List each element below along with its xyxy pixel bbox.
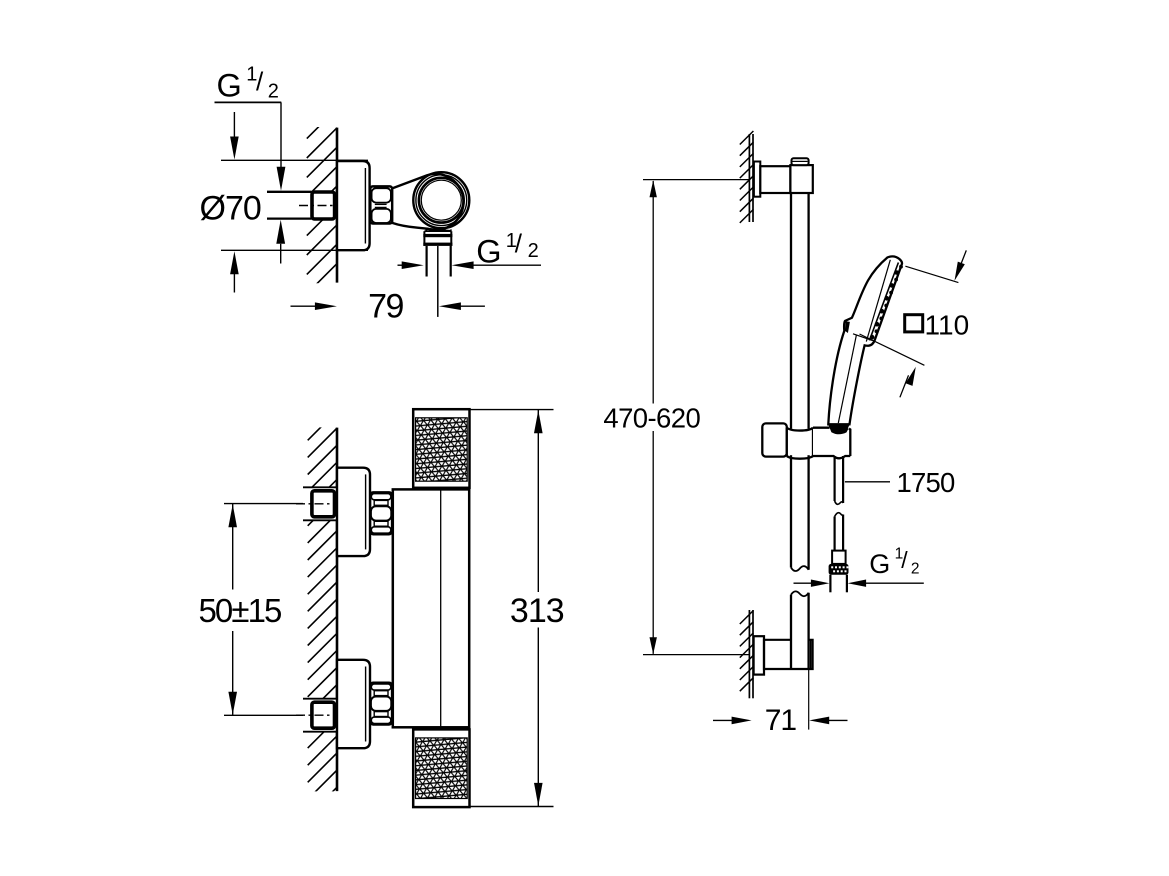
- svg-text:79: 79: [368, 288, 403, 326]
- svg-text:2: 2: [528, 240, 539, 262]
- holder notch (dark): [830, 428, 849, 434]
- svg-text:/: /: [901, 547, 908, 573]
- svg-text:G: G: [476, 233, 501, 269]
- extension line 50+-15 lower: [224, 714, 310, 716]
- rail break line lower: [791, 591, 809, 596]
- union washer edges lower (front view): [303, 699, 336, 732]
- volume knob (front view, knurled): [413, 729, 469, 807]
- outlet pipe (side view): [426, 246, 428, 277]
- flange edge highlight line (side view): [364, 168, 366, 244]
- G1/2 leader line + arrow to supply nipple: [280, 102, 282, 170]
- wall face line (side view): [336, 128, 339, 283]
- svg-text:470-620: 470-620: [603, 402, 700, 433]
- body edge line (front view): [440, 489, 442, 727]
- dimension 79: [291, 305, 319, 307]
- dimension line 313: [537, 410, 539, 592]
- temperature knob (front view, knurled): [413, 409, 469, 488]
- outlet G1/2 dimension arrows: [398, 264, 403, 266]
- hex union nut (side view): [370, 186, 392, 223]
- label square110: [905, 315, 923, 332]
- shower rail upper segment: [790, 193, 792, 568]
- valve body silhouette (side view): [392, 174, 463, 230]
- upper rail bracket escutcheon: [754, 162, 760, 197]
- svg-text:G: G: [217, 68, 242, 104]
- temperature knob circles (side view): [413, 172, 469, 228]
- shower rail lower segment: [790, 595, 792, 669]
- dimension line 470-620: [652, 181, 654, 404]
- svg-text:313: 313: [510, 592, 564, 630]
- wall hatch ticks bottom (right view): [740, 611, 754, 692]
- extension line 470-620 top: [643, 179, 749, 181]
- svg-text:G: G: [869, 549, 890, 579]
- svg-text:71: 71: [765, 704, 797, 737]
- wall union square nut lower (front view): [312, 702, 335, 728]
- O70 arrow up: [233, 272, 235, 293]
- slider clamp knob: [762, 423, 787, 456]
- rail break line upper: [791, 566, 809, 571]
- shower outlet neck (side view): [426, 228, 451, 231]
- outlet pipe centerline / extension for 79: [437, 246, 439, 317]
- hand shower silhouette (head + handle): [828, 256, 902, 424]
- thermostat body (front view): [393, 489, 469, 727]
- slider shower holder section: [813, 429, 850, 456]
- svg-text:/: /: [515, 228, 523, 258]
- extension line 50+-15 upper: [224, 503, 310, 505]
- svg-text:110: 110: [925, 310, 970, 341]
- upper rail bracket body: [760, 166, 790, 193]
- svg-text:/: /: [256, 67, 264, 97]
- hex union nut upper (front view): [370, 492, 392, 534]
- wall union square nut (side view): [312, 192, 335, 219]
- extension line 470-620 bottom: [643, 654, 749, 656]
- handle cone end (dark): [828, 424, 850, 432]
- centerline upper nut: [296, 503, 335, 505]
- head size extension line upper: [905, 266, 958, 282]
- dimension 71: [713, 719, 734, 721]
- extension line, flange bottom (O70 lower): [221, 249, 368, 251]
- hose G1/2 dimension arrows: [794, 582, 813, 584]
- lower rail bracket escutcheon: [754, 636, 764, 674]
- shower hose lower segment: [835, 513, 844, 517]
- escutcheon flange (side view): [337, 161, 370, 250]
- supply pipe stub (side view): [267, 193, 312, 217]
- wall segment top (right view): [748, 134, 750, 222]
- wall hatching (side view): [307, 108, 337, 293]
- slider middle section on rail: [787, 429, 813, 456]
- spray nozzles (dots along face): [899, 265, 903, 269]
- upper rail bracket clamp: [790, 165, 812, 193]
- lower rail bracket outline: [764, 640, 813, 669]
- svg-text:1750: 1750: [897, 467, 955, 498]
- union washer edges upper (front view): [303, 487, 336, 520]
- head/handle junction line: [853, 334, 873, 341]
- wall hatching (front view): [308, 411, 337, 817]
- escutcheon flange upper (front view): [337, 468, 370, 556]
- extension line 313 top: [470, 409, 554, 411]
- O70 arrow down: [233, 112, 235, 140]
- lower rail bracket body fill: [764, 640, 813, 669]
- hose ferrule: [832, 551, 846, 564]
- svg-text:50±15: 50±15: [198, 592, 281, 629]
- svg-text:2: 2: [911, 561, 920, 578]
- head size arrow lower: [900, 375, 909, 397]
- spray face inner line B: [866, 260, 890, 342]
- rail top cap: [792, 158, 809, 165]
- handle inner line: [838, 335, 856, 424]
- lower bracket cap line: [810, 640, 812, 669]
- shower hose upper segment: [833, 456, 835, 501]
- wall hatch ticks top (right view): [740, 131, 754, 223]
- hose nut G1/2 (knurled dark): [829, 564, 849, 575]
- hose connection stub: [829, 575, 831, 593]
- hex union nut lower (front view): [370, 683, 392, 725]
- G1/2 label underline: [215, 101, 282, 103]
- hose break line upper: [835, 501, 844, 504]
- centerline lower nut: [296, 714, 335, 716]
- spray mode button (dark): [845, 321, 850, 333]
- nipple diameter arrow (up): [280, 244, 282, 264]
- pipe centerline (dash-dot, side view): [299, 205, 335, 207]
- head size arrow upper: [958, 250, 967, 273]
- svg-text:Ø70: Ø70: [200, 190, 261, 228]
- outlet locknut with dark bands (side view): [424, 231, 452, 246]
- leader line 1750 (hose length): [845, 481, 890, 483]
- dimension line 50+-15: [232, 504, 234, 590]
- extension line 71 (rail edge): [808, 670, 810, 730]
- escutcheon flange lower (front view): [337, 660, 370, 748]
- svg-text:2: 2: [268, 80, 279, 102]
- spray face inner line A: [869, 263, 898, 341]
- wall segment bottom (right view): [748, 610, 750, 698]
- wall face line (front view): [336, 428, 339, 791]
- extension line, flange top (O70 upper): [221, 159, 368, 161]
- head size extension line lower: [860, 334, 925, 365]
- wall union square nut upper (front view): [312, 491, 335, 517]
- extension line 313 bottom: [469, 806, 553, 808]
